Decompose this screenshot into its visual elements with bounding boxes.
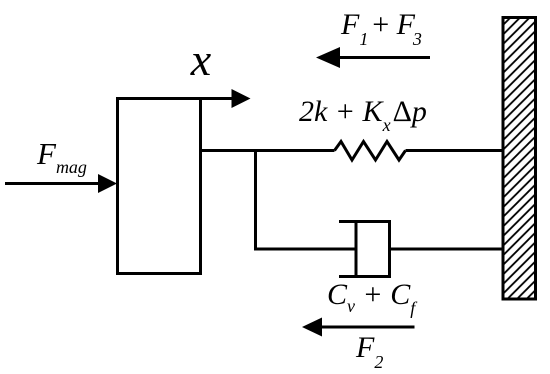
force arrow F_mag shaft	[5, 182, 100, 185]
wire: displacement arrow shaft x	[116, 97, 233, 100]
mass block M	[118, 99, 201, 274]
arrowhead of F2	[302, 318, 322, 337]
force arrow F2 shaft	[320, 326, 415, 329]
arrowhead of F_mag	[98, 174, 117, 193]
svg-text:x: x	[190, 34, 212, 85]
damper cylinder right wall	[388, 220, 391, 278]
wire: branch from spring line down	[254, 149, 257, 249]
wire: mass to spring	[201, 149, 335, 152]
arrowhead of F1+F3	[316, 47, 340, 68]
wire: spring to wall	[406, 149, 505, 152]
wire: damper to wall	[390, 248, 505, 251]
damper cylinder top	[339, 220, 391, 223]
wire: branch to damper piston rod	[254, 248, 356, 251]
arrowhead of x	[232, 89, 251, 108]
spring 2k+KxΔp zigzag	[335, 142, 406, 161]
damper Cv+Cf piston plate	[355, 222, 358, 277]
wall (hatched ground)	[503, 18, 536, 300]
force arrow F1+F3 shaft	[338, 56, 430, 59]
damper cylinder bottom	[339, 275, 391, 278]
